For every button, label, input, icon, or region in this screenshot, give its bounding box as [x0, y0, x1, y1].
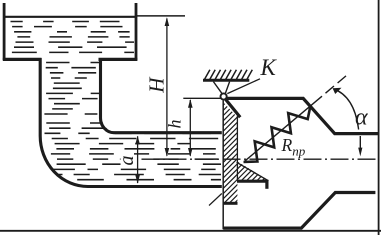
svg-text:H: H: [145, 76, 169, 94]
svg-text:K: K: [260, 55, 278, 80]
svg-text:h: h: [165, 120, 185, 129]
svg-text:α: α: [355, 105, 368, 131]
svg-text:a: a: [116, 156, 138, 166]
